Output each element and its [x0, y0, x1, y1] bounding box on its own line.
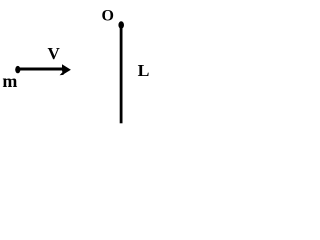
- svg-text:V: V: [48, 44, 61, 63]
- velocity arrow wire: [19, 68, 63, 71]
- svg-text:L: L: [138, 61, 150, 80]
- mass dot m: [15, 66, 20, 73]
- arrowhead of V: [60, 64, 71, 75]
- svg-text:O: O: [102, 8, 114, 25]
- pivot dot O: [118, 21, 124, 28]
- svg-text:m: m: [2, 71, 17, 91]
- string wire L: [120, 27, 123, 123]
